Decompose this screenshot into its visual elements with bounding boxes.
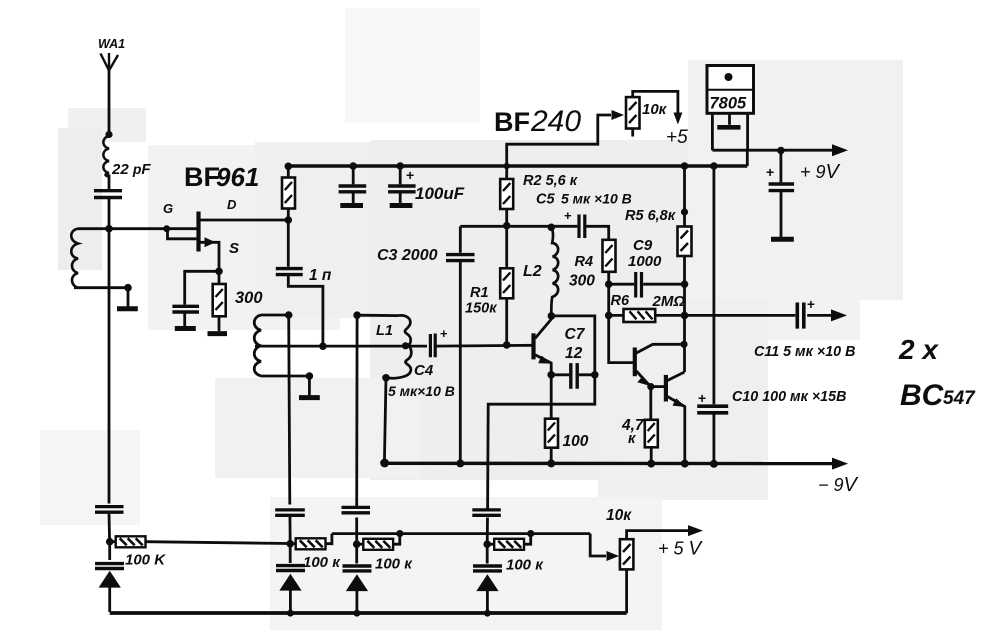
wire collector to C7 right branch bbox=[551, 316, 594, 375]
ground resistor 300 bbox=[208, 331, 228, 336]
svg-text:R5 6,8к: R5 6,8к bbox=[625, 208, 676, 224]
svg-text:7805: 7805 bbox=[710, 95, 748, 113]
regulator 7805 bbox=[707, 66, 754, 151]
svg-text:100 к: 100 к bbox=[506, 557, 544, 574]
wire R5 C9 R6 vertical bbox=[683, 284, 686, 315]
svg-text:150к: 150к bbox=[465, 301, 497, 317]
svg-text:R6: R6 bbox=[611, 293, 630, 309]
svg-text:300: 300 bbox=[569, 273, 595, 290]
svg-text:BC: BC bbox=[900, 379, 945, 412]
svg-text:C10 100 мк ×15В: C10 100 мк ×15В bbox=[732, 389, 846, 405]
varactor D1 bbox=[95, 542, 124, 612]
svg-text:+: + bbox=[440, 326, 448, 341]
svg-text:− 9V: − 9V bbox=[818, 474, 859, 496]
node chain4 junction bbox=[483, 540, 491, 548]
wire +9V rail bbox=[288, 164, 747, 167]
svg-text:R4: R4 bbox=[575, 254, 594, 270]
resistor drain load bbox=[282, 166, 295, 220]
svg-text:961: 961 bbox=[216, 162, 259, 192]
capacitor C 100uF bbox=[388, 162, 416, 205]
svg-text:C7: C7 bbox=[565, 326, 586, 343]
svg-text:+ 5 V: + 5 V bbox=[658, 539, 704, 560]
svg-text:BF: BF bbox=[494, 107, 530, 137]
svg-text:D: D bbox=[227, 197, 237, 212]
capacitor 1p coupling bbox=[276, 220, 323, 346]
svg-text:+: + bbox=[807, 297, 815, 312]
svg-text:+: + bbox=[698, 390, 706, 406]
wire Q2 base feed bbox=[609, 315, 633, 362]
resistor 100k chain3 bbox=[357, 534, 400, 550]
potentiometer 10k bottom bbox=[620, 525, 703, 613]
inductor oscillator coil tapped bbox=[254, 315, 309, 376]
node coil2 top bbox=[285, 311, 293, 319]
capacitor source bypass bbox=[172, 271, 219, 326]
capacitor C4 bbox=[430, 326, 448, 357]
node gate junction bbox=[105, 225, 113, 233]
node chain1 junction bbox=[106, 538, 114, 546]
wire chain2 bbox=[288, 514, 291, 544]
resistor 100 emitter bbox=[545, 375, 558, 464]
node L2 top bbox=[548, 224, 556, 232]
svg-text:300: 300 bbox=[235, 289, 263, 307]
resistor 100k chain4 bbox=[487, 534, 531, 550]
node chain4 bus bbox=[527, 530, 534, 537]
node rail Q3 emitter bbox=[681, 460, 689, 468]
svg-text:L2: L2 bbox=[523, 263, 542, 280]
svg-text:12: 12 bbox=[565, 345, 583, 362]
resistor R1 bbox=[500, 226, 513, 345]
svg-text:C3 2000: C3 2000 bbox=[377, 247, 438, 264]
ground input coil bbox=[117, 288, 138, 309]
node bottom rail chain4 bbox=[484, 610, 491, 617]
node antenna junction bbox=[105, 131, 112, 138]
svg-text:10к: 10к bbox=[642, 101, 668, 118]
svg-text:L1: L1 bbox=[376, 323, 393, 339]
wire feedback to varicap bus bbox=[488, 375, 595, 509]
svg-text:22 pF: 22 pF bbox=[111, 161, 151, 178]
wire bus to pot wiper bbox=[590, 534, 619, 561]
node chain2 junction bbox=[286, 540, 294, 548]
node drain junction bbox=[285, 216, 293, 224]
node R6 right bbox=[681, 312, 689, 320]
svg-text:R2 5,6 к: R2 5,6 к bbox=[523, 173, 578, 189]
capacitor C5 bbox=[564, 208, 585, 238]
varactor D2 bbox=[276, 544, 305, 614]
wire node row y226 bbox=[460, 226, 608, 240]
node R2 bottom bbox=[503, 222, 511, 230]
node C7 right bbox=[591, 371, 599, 379]
svg-text:1 п: 1 п bbox=[309, 267, 332, 284]
node R6 left bbox=[605, 312, 613, 320]
node rail left corner bbox=[380, 459, 389, 468]
node rail 4.7k bbox=[647, 460, 655, 468]
capacitor chain4 series bbox=[472, 510, 501, 515]
antenna WA1 bbox=[101, 53, 119, 134]
resistor 4.7k bbox=[645, 387, 658, 464]
node chain3 bus bbox=[396, 530, 403, 537]
capacitor chain2 series bbox=[275, 510, 305, 515]
svg-text:240: 240 bbox=[530, 105, 581, 138]
inductor input coil L bbox=[71, 229, 128, 288]
node L1 top left bbox=[353, 311, 361, 319]
svg-text:+: + bbox=[564, 208, 572, 223]
resistor R4 bbox=[603, 240, 616, 284]
wire L1 left line down bbox=[355, 315, 358, 508]
svg-text:+5: +5 bbox=[666, 127, 688, 148]
wire bottom ground rail bbox=[110, 611, 627, 615]
wire chain3 bbox=[355, 518, 358, 545]
svg-text:+ 9V: + 9V bbox=[800, 161, 841, 183]
wire signal line to base bbox=[255, 344, 534, 348]
transistor Q3 bbox=[651, 372, 686, 464]
svg-text:C5: C5 bbox=[536, 192, 555, 208]
capacitor C3 bbox=[446, 226, 475, 463]
capacitor C7 bbox=[551, 363, 595, 389]
node Q1 collector bbox=[548, 312, 556, 320]
wire chain1 bbox=[108, 514, 111, 542]
svg-text:100 K: 100 K bbox=[125, 552, 166, 569]
svg-text:100: 100 bbox=[563, 433, 589, 450]
node bottom rail chain3 bbox=[354, 610, 361, 617]
svg-text:S: S bbox=[229, 240, 239, 257]
resistor 100k chain2 bbox=[290, 534, 332, 550]
node rail C10 bbox=[710, 460, 718, 468]
wire antenna line down bbox=[108, 229, 111, 504]
inductor antenna coil bbox=[103, 136, 109, 177]
node Q1 emitter bbox=[547, 371, 555, 379]
node rail 100 bbox=[547, 459, 555, 467]
svg-text:2MΩ: 2MΩ bbox=[652, 293, 686, 310]
wire varicap bus bbox=[332, 532, 590, 535]
resistor 100K chain1 bbox=[110, 536, 291, 547]
capacitor chain3 series bbox=[342, 507, 371, 512]
node bottom rail chain2 bbox=[287, 610, 294, 617]
inductor L2 bbox=[551, 227, 558, 315]
wire +9V output line bbox=[712, 144, 848, 166]
node coil2 bottom bbox=[306, 372, 314, 380]
svg-text:100 к: 100 к bbox=[375, 556, 413, 573]
svg-text:BF: BF bbox=[184, 162, 220, 192]
transistor Q1 bbox=[534, 316, 552, 375]
svg-text:2 x: 2 x bbox=[898, 334, 939, 365]
node 1p junction bbox=[319, 342, 327, 350]
svg-text:100 к: 100 к bbox=[303, 554, 341, 571]
svg-text:5 мк ×10 В: 5 мк ×10 В bbox=[561, 191, 632, 207]
wire BF240 to trimmer bbox=[507, 110, 624, 166]
svg-text:C11 5 мк ×10 В: C11 5 мк ×10 В bbox=[754, 344, 855, 360]
inductor L1 bbox=[357, 315, 411, 378]
node C9 right bbox=[681, 280, 689, 288]
node source junction bbox=[215, 268, 223, 276]
resistor R6 bbox=[609, 309, 685, 322]
wire R4 node down bbox=[607, 284, 610, 315]
wire collectors vertical bbox=[683, 315, 686, 372]
node R4 bottom bbox=[605, 280, 613, 288]
transistor Q2 bbox=[635, 344, 684, 387]
ground source bypass bbox=[175, 326, 196, 331]
capacitor C10 bbox=[697, 162, 728, 464]
svg-text:C9: C9 bbox=[633, 237, 653, 254]
svg-text:1000: 1000 bbox=[628, 253, 662, 270]
node rail left end bbox=[285, 163, 293, 171]
wire -9V rail bbox=[384, 458, 848, 470]
wire chain4 bbox=[486, 518, 489, 545]
capacitor C11 bbox=[685, 297, 848, 329]
svg-text:+: + bbox=[406, 167, 414, 183]
node Q2 collector bbox=[680, 341, 687, 348]
trimmer 10k top bbox=[626, 91, 682, 136]
svg-text:C4: C4 bbox=[414, 362, 434, 379]
varactor D4 bbox=[473, 544, 502, 613]
svg-text:к: к bbox=[628, 431, 636, 447]
node L1 bottom bbox=[382, 374, 390, 382]
svg-text:G: G bbox=[163, 201, 173, 216]
capacitor C9 bbox=[609, 272, 685, 298]
resistor R5 bbox=[678, 162, 692, 284]
node rail C3 bbox=[456, 459, 464, 467]
svg-text:5 мк×10 В: 5 мк×10 В bbox=[388, 383, 455, 399]
capacitor rail bypass A bbox=[339, 162, 367, 205]
svg-text:WA1: WA1 bbox=[98, 37, 125, 51]
resistor 300 source bbox=[213, 271, 226, 331]
wire L1 bottom to minus rail bbox=[384, 378, 386, 463]
capacitor antenna series bbox=[94, 175, 122, 228]
node chain3 junction bbox=[353, 540, 361, 548]
svg-text:10к: 10к bbox=[606, 507, 632, 524]
capacitor chain1 series bbox=[95, 507, 124, 513]
node +9V cap junction bbox=[777, 147, 785, 155]
svg-text:547: 547 bbox=[943, 388, 976, 409]
svg-text:+: + bbox=[766, 164, 774, 180]
node coil bottom bbox=[124, 284, 132, 292]
varactor D3 bbox=[343, 544, 372, 613]
ground coil2 bbox=[299, 376, 320, 398]
wire coil2 top down to varicap row bbox=[289, 315, 290, 505]
svg-text:100uF: 100uF bbox=[415, 184, 465, 203]
svg-text:R1: R1 bbox=[470, 285, 489, 301]
node L1 tap bbox=[402, 342, 409, 349]
transistor U1 BF961 bbox=[109, 212, 288, 272]
label BF 240 bbox=[494, 105, 581, 138]
label BF961 bbox=[184, 162, 259, 192]
node BF240 rail crossing bbox=[504, 163, 510, 169]
capacitor +9V filter bbox=[766, 151, 794, 240]
node Q2 emitter Q3 base bbox=[647, 383, 654, 390]
node R1 base junction bbox=[503, 341, 511, 349]
resistor R2 bbox=[500, 166, 513, 226]
